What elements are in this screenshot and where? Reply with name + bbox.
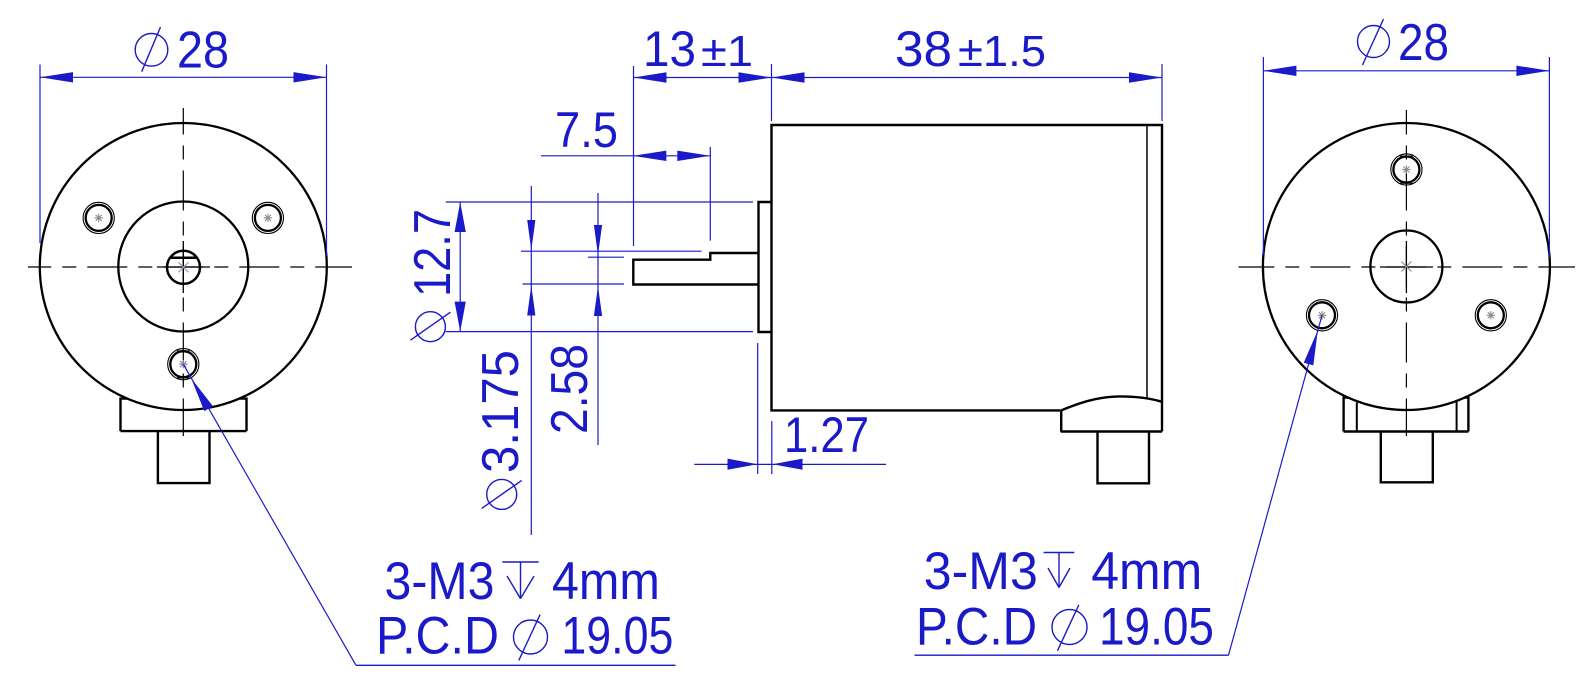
hole bottom cross bbox=[177, 350, 190, 352]
extension line left bbox=[39, 65, 41, 244]
shaft bbox=[633, 253, 758, 285]
extension line body face bbox=[771, 421, 773, 474]
tab narrow bbox=[158, 431, 210, 483]
dimension line bbox=[634, 77, 772, 79]
svg-text:19.05: 19.05 bbox=[1099, 598, 1214, 657]
center cross solid bbox=[1380, 266, 1433, 268]
bump right edge bbox=[1161, 402, 1163, 432]
hole upper-left bbox=[86, 205, 112, 231]
extension line boss top bbox=[446, 201, 753, 203]
center point marker bbox=[1401, 262, 1411, 272]
tab narrow bbox=[1381, 432, 1433, 483]
svg-text:19.05: 19.05 bbox=[561, 607, 673, 666]
leader landing / underline bbox=[915, 654, 1229, 656]
hole upper-right point marker bbox=[264, 214, 272, 222]
dimension line bbox=[694, 463, 886, 465]
extension line boss face bbox=[757, 343, 759, 474]
svg-text:4mm: 4mm bbox=[1091, 542, 1202, 601]
hole upper-right bbox=[255, 205, 281, 231]
arrow left bbox=[1263, 66, 1296, 76]
svg-text:P.C.D: P.C.D bbox=[376, 607, 499, 666]
svg-text:4mm: 4mm bbox=[552, 552, 660, 611]
hole bottom bbox=[170, 351, 196, 377]
extension line shaft bottom bbox=[523, 283, 625, 285]
hole lower-left bbox=[1309, 302, 1335, 328]
leader arrow bbox=[1304, 330, 1318, 365]
svg-text:3-M3: 3-M3 bbox=[385, 552, 495, 611]
arrow left bbox=[633, 151, 666, 161]
diameter symbol bbox=[135, 34, 168, 67]
svg-text:7.5: 7.5 bbox=[555, 102, 618, 158]
arrow right bbox=[1129, 72, 1162, 82]
arrow up to shaft bottom bbox=[527, 286, 535, 316]
tab wide left edge bbox=[121, 399, 247, 484]
dimension line vertical bbox=[597, 193, 599, 445]
shaft flat chord bbox=[171, 257, 197, 260]
leader line bbox=[183, 364, 356, 665]
depth symbol bbox=[1044, 553, 1075, 588]
depth symbol bbox=[502, 562, 538, 599]
arrow right bbox=[1516, 66, 1549, 76]
center cross solid bbox=[157, 266, 210, 268]
diameter symbol rotated bbox=[415, 312, 445, 342]
center hole bbox=[1370, 231, 1442, 303]
dimension line bbox=[772, 77, 1163, 79]
leader arrow bbox=[191, 378, 213, 411]
dimension line bbox=[1263, 70, 1549, 72]
leader landing / underline bbox=[356, 664, 676, 666]
svg-text:3.175: 3.175 bbox=[472, 350, 530, 473]
extension line shaft top bbox=[521, 250, 702, 252]
svg-text:3-M3: 3-M3 bbox=[924, 542, 1038, 601]
arrow down to shaft top bbox=[527, 220, 535, 250]
centerline vertical bbox=[1405, 110, 1407, 436]
hole top point marker bbox=[1402, 165, 1410, 173]
extension line shaft end bbox=[633, 66, 635, 246]
svg-text:2.58: 2.58 bbox=[541, 344, 599, 434]
arrow top bbox=[455, 202, 466, 232]
diameter symbol bbox=[514, 620, 548, 654]
centerline horizontal bbox=[28, 266, 352, 268]
arrow bottom bbox=[455, 302, 466, 332]
hole lower-right point marker bbox=[1487, 311, 1495, 319]
svg-text:12.7: 12.7 bbox=[404, 209, 462, 297]
tab bottom bbox=[1344, 430, 1469, 432]
diameter symbol bbox=[1358, 26, 1390, 58]
dimension line vertical bbox=[530, 186, 532, 535]
hole top bbox=[1393, 157, 1419, 183]
extension line body right bbox=[1161, 64, 1163, 121]
tab inner walls bbox=[1356, 403, 1358, 432]
shaft center point marker bbox=[179, 262, 189, 272]
centerline horizontal bbox=[1239, 266, 1576, 268]
tab outer bbox=[1344, 398, 1469, 483]
tab wide right edge bbox=[239, 399, 246, 432]
bump bottom bbox=[1061, 430, 1162, 432]
hole lower-left point marker bbox=[1318, 311, 1326, 319]
svg-text:1.27: 1.27 bbox=[784, 407, 869, 463]
inner line right bbox=[1146, 126, 1148, 398]
diameter symbol bbox=[1052, 610, 1087, 645]
dimension line vertical bbox=[459, 202, 461, 332]
arrow pointing right bbox=[728, 459, 758, 470]
svg-text:P.C.D: P.C.D bbox=[916, 598, 1037, 657]
connector rectangle bbox=[1098, 432, 1150, 484]
hole bottom point marker bbox=[179, 360, 187, 368]
arrow right bbox=[677, 151, 710, 161]
dimension line bbox=[40, 76, 327, 78]
extension line right bbox=[1548, 57, 1550, 257]
bottom-right bump bbox=[1061, 396, 1162, 431]
svg-text:28: 28 bbox=[1398, 14, 1449, 72]
boss circle bbox=[118, 202, 248, 332]
extension line body left bbox=[771, 64, 773, 121]
extension line flat step bbox=[709, 147, 711, 241]
svg-text:±1: ±1 bbox=[701, 27, 753, 76]
arrow left bbox=[40, 72, 73, 82]
arrow right bbox=[739, 72, 772, 82]
extension line left bbox=[1262, 57, 1264, 255]
outer circle bbox=[1263, 123, 1550, 410]
hole upper-left point marker bbox=[95, 214, 103, 222]
extension line right bbox=[326, 65, 328, 257]
dimension line bbox=[541, 155, 710, 157]
hole top cross bbox=[1400, 155, 1413, 157]
svg-text:±1.5: ±1.5 bbox=[958, 27, 1046, 76]
hole lower-right bbox=[1478, 302, 1504, 328]
arrow down to flat top bbox=[594, 225, 602, 255]
svg-text:13: 13 bbox=[643, 21, 696, 77]
svg-text:28: 28 bbox=[177, 22, 229, 80]
leader line bbox=[1229, 315, 1323, 655]
outer circle bbox=[40, 123, 327, 410]
extension line boss bottom bbox=[446, 331, 753, 333]
extension line flat top bbox=[588, 256, 624, 258]
shaft circle bbox=[167, 251, 200, 284]
arrow right bbox=[294, 72, 327, 82]
centerline vertical bbox=[182, 108, 184, 436]
arrow left bbox=[634, 72, 667, 82]
arrow left bbox=[772, 72, 805, 82]
body rectangle bbox=[772, 125, 1163, 410]
arrow pointing left bbox=[773, 459, 803, 470]
boss front plate bbox=[759, 202, 772, 332]
tab wide bottom bbox=[121, 430, 247, 432]
arrow up to shaft bottom bbox=[594, 286, 602, 316]
svg-text:38: 38 bbox=[895, 21, 952, 77]
diameter symbol bbox=[487, 479, 517, 509]
